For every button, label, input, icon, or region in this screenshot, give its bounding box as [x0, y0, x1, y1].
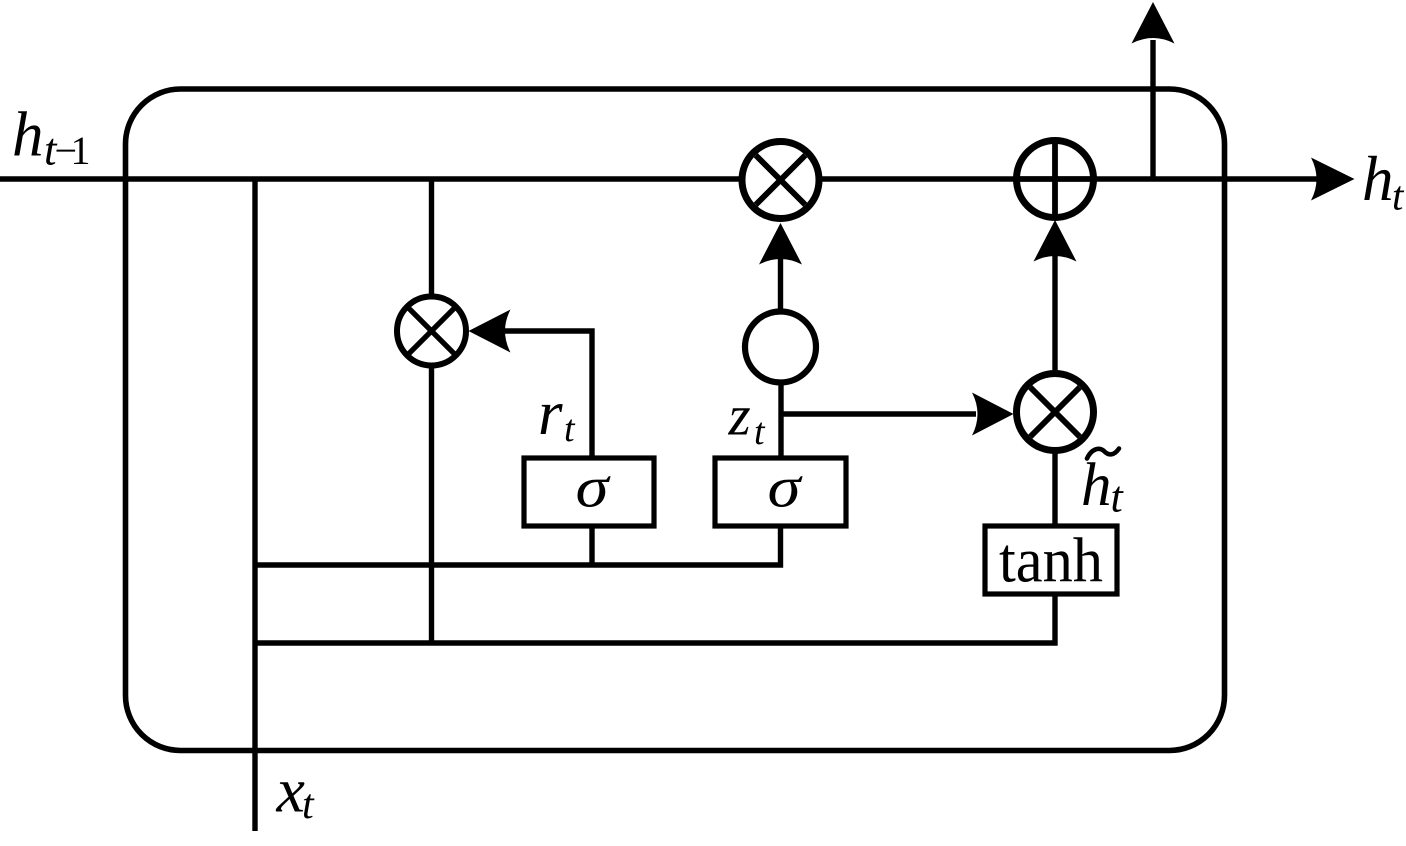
gate box sigma (reset r_t) — [524, 458, 654, 526]
svg-text:t: t — [302, 782, 315, 828]
svg-text:h: h — [1081, 452, 1112, 519]
wire h_{t-1} to h_t (main horizontal state line) — [0, 176, 1318, 181]
svg-text:1: 1 — [71, 128, 91, 173]
svg-text:h: h — [1362, 144, 1394, 214]
svg-text:σ: σ — [576, 455, 612, 520]
wire reset-branch vertical (h line down to reset multiplier) — [429, 179, 434, 298]
wire below reset multiplier down to concat bus — [429, 364, 434, 643]
arrowhead h_t output (right) — [1311, 158, 1355, 201]
svg-text:t: t — [754, 411, 766, 453]
svg-text:t: t — [1392, 173, 1405, 219]
arrow 1-z circle up to h-line multiplier — [778, 256, 783, 310]
svg-text:σ: σ — [768, 455, 804, 520]
multiplier (reset gate) circle-X — [397, 297, 466, 366]
arrowhead into candidate multiplier (right) — [972, 393, 1014, 436]
1-z circle (empty) — [745, 312, 816, 383]
arrowhead into reset multiplier (left) — [469, 310, 511, 353]
wire candidate multiplier down to tanh box — [1052, 452, 1057, 526]
candidate multiplier circle-X — [1017, 374, 1094, 451]
wire lower bus y=643 (x_t feed to tanh) — [255, 594, 1055, 643]
adder circle-plus — [1017, 141, 1094, 218]
svg-text:h: h — [12, 100, 44, 170]
gate box sigma (update z_t) — [715, 458, 846, 526]
wire middle bus y=565 (feed to sigma gates) — [255, 526, 781, 565]
tanh box — [985, 526, 1117, 594]
svg-text:r: r — [538, 378, 563, 448]
wire x_t vertical input — [252, 179, 257, 831]
svg-text:t: t — [1111, 473, 1125, 522]
wire r_t from sigma box up and left into reset multiplier — [505, 331, 592, 458]
wire stub below sigma r box — [589, 526, 594, 567]
wire z_t from sigma box up to 1-z circle — [778, 380, 783, 458]
arrow candidate multiplier up to adder — [1052, 256, 1057, 370]
svg-text:z: z — [728, 385, 751, 448]
arrowhead output up — [1132, 2, 1175, 44]
svg-text:t: t — [564, 408, 576, 450]
svg-text:tanh: tanh — [999, 525, 1103, 596]
wire output up through cell top — [1150, 40, 1155, 179]
svg-text:x: x — [276, 755, 305, 826]
cell body (rounded rectangle) — [126, 89, 1225, 751]
multiplier on h-line circle-X — [742, 142, 819, 219]
wire z_t branch right into candidate multiplier — [781, 411, 976, 416]
